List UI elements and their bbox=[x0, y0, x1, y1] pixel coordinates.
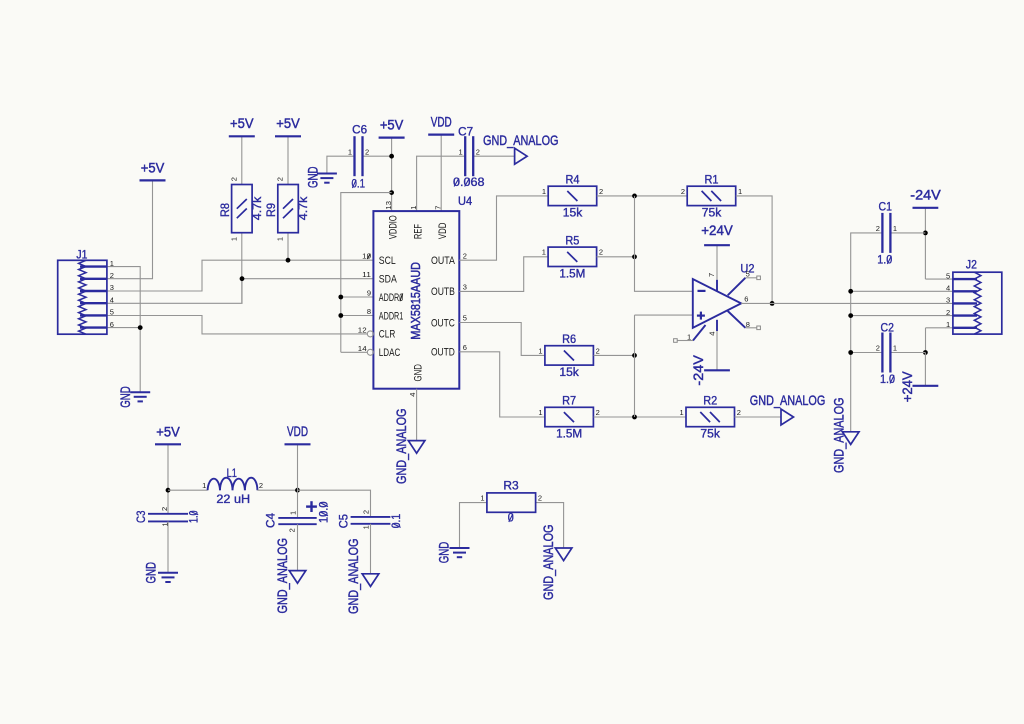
connector J1 pin numbers bbox=[110, 259, 114, 329]
label GND (J1) bbox=[117, 386, 133, 408]
capacitor C5 pin2 number bbox=[361, 510, 370, 514]
svg-text:2: 2 bbox=[259, 481, 263, 490]
svg-text:1: 1 bbox=[680, 408, 684, 417]
capacitor C4 plus sign bbox=[306, 501, 317, 512]
svg-text:OUTA: OUTA bbox=[431, 255, 455, 267]
wire J2 pin5 bbox=[925, 278, 953, 280]
svg-text:R3: R3 bbox=[503, 480, 518, 492]
capacitor C3 pin1 number bbox=[160, 522, 169, 526]
svg-text:1: 1 bbox=[276, 237, 285, 241]
svg-text:1.0: 1.0 bbox=[880, 374, 895, 386]
label +24V (J2) bbox=[899, 371, 915, 403]
label GND_ANALOG (R2) bbox=[750, 392, 826, 408]
svg-text:+5V: +5V bbox=[380, 116, 404, 132]
svg-text:GND: GND bbox=[305, 167, 321, 189]
resistor R3 designator bbox=[503, 480, 518, 492]
svg-text:1: 1 bbox=[409, 206, 418, 210]
svg-text:4: 4 bbox=[946, 284, 950, 293]
svg-text:GND_ANALOG: GND_ANALOG bbox=[483, 132, 559, 148]
resistor R8 designator bbox=[220, 203, 232, 217]
svg-text:4: 4 bbox=[408, 393, 417, 397]
capacitor C3 value bbox=[189, 511, 201, 524]
svg-text:1: 1 bbox=[202, 481, 206, 490]
wire L1 pin2 to VDD bbox=[257, 489, 297, 491]
wire R9 to SCL bbox=[287, 233, 289, 261]
svg-text:2: 2 bbox=[365, 147, 369, 156]
svg-text:10: 10 bbox=[362, 252, 371, 261]
svg-text:C6: C6 bbox=[352, 125, 367, 137]
wire ADDR/LDAC tie bbox=[341, 193, 392, 353]
svg-text:4.7k: 4.7k bbox=[252, 196, 264, 220]
power bar +5V (filter) bbox=[155, 443, 181, 445]
IC U4 left pin numbers bbox=[358, 252, 371, 353]
wire C3 to GND bbox=[167, 521, 169, 572]
resistor R1 bbox=[681, 186, 742, 205]
capacitor C5 bbox=[351, 517, 391, 524]
wire J1 pin6 bbox=[107, 327, 140, 329]
wire to +24V bar bbox=[924, 353, 926, 386]
ground GND_ANALOG (C5) bbox=[362, 574, 379, 587]
svg-text:2: 2 bbox=[599, 187, 603, 196]
resistor R4 value bbox=[563, 207, 583, 219]
svg-text:R5: R5 bbox=[565, 235, 579, 247]
wire R5 to node bbox=[597, 256, 635, 258]
svg-text:R9: R9 bbox=[266, 203, 278, 217]
wire R3 pin2 to GND_ANALOG bbox=[536, 503, 564, 548]
op-amp pin1 stub bbox=[693, 325, 706, 341]
ground GND (J1) bbox=[130, 392, 150, 401]
label GND (C6) bbox=[305, 167, 321, 189]
svg-text:GND_ANALOG: GND_ANALOG bbox=[831, 398, 847, 474]
svg-text:CLR: CLR bbox=[379, 329, 396, 341]
svg-text:-24V: -24V bbox=[690, 354, 706, 385]
resistor R5 bbox=[542, 247, 603, 266]
svg-text:GND: GND bbox=[143, 562, 159, 584]
junction +5V/ADDR tie bbox=[389, 190, 394, 195]
label +24V (U2) bbox=[701, 222, 733, 238]
svg-text:C5: C5 bbox=[338, 514, 350, 528]
svg-text:2: 2 bbox=[538, 494, 542, 503]
wire R7 to R2 bbox=[594, 416, 686, 418]
svg-text:VDD: VDD bbox=[287, 423, 308, 439]
wire to op-amp noninverting input bbox=[635, 314, 693, 316]
resistor R7 value bbox=[556, 429, 582, 441]
svg-text:R1: R1 bbox=[705, 175, 719, 187]
connector J2 bbox=[953, 272, 1002, 334]
svg-text:3: 3 bbox=[110, 283, 114, 292]
label GND_ANALOG (C4) bbox=[274, 538, 290, 614]
svg-text:R2: R2 bbox=[703, 396, 717, 408]
wire C1 pin2 analog ground rail bbox=[851, 233, 883, 432]
IC U4 top pin number 13 bbox=[384, 201, 393, 210]
wire noninverting vertical bbox=[634, 315, 636, 417]
wire +5V to C3/L1 bbox=[167, 444, 169, 514]
svg-text:OUTD: OUTD bbox=[431, 347, 455, 359]
wire J1 pin4 to SDA bbox=[107, 279, 373, 304]
power bar +5V (J1) bbox=[140, 179, 166, 181]
svg-text:1: 1 bbox=[538, 346, 542, 355]
svg-text:1: 1 bbox=[361, 525, 370, 529]
wire OUTD to R7 bbox=[459, 352, 544, 417]
power bar +24V (J2) bbox=[913, 385, 939, 387]
resistor R1 value bbox=[702, 207, 722, 219]
capacitor C5 value bbox=[391, 514, 403, 529]
op-amp pin1 number bbox=[687, 332, 691, 341]
wire C1 pin1 bbox=[890, 232, 925, 234]
junction R6 node bbox=[632, 353, 637, 358]
resistor R6 bbox=[538, 346, 599, 365]
label +5V (U4) bbox=[380, 116, 404, 132]
svg-text:C7: C7 bbox=[458, 126, 473, 138]
capacitor C2 designator bbox=[881, 323, 894, 335]
IC U4 bottom pin name GND bbox=[412, 364, 424, 382]
svg-text:1: 1 bbox=[288, 511, 297, 515]
ground GND_ANALOG (R3) bbox=[555, 548, 572, 561]
wire R3 pin1 to GND bbox=[460, 503, 487, 548]
svg-text:1: 1 bbox=[348, 147, 352, 156]
wire J2 pin1 bbox=[926, 327, 953, 329]
capacitor C5 pin1 number bbox=[361, 525, 370, 529]
inductor L1 pin2 number bbox=[259, 481, 263, 490]
svg-text:4.7k: 4.7k bbox=[298, 196, 310, 220]
power bar -24V (J2) bbox=[913, 207, 939, 209]
resistor R2 designator bbox=[703, 396, 717, 408]
svg-text:GND_ANALOG: GND_ANALOG bbox=[345, 539, 361, 615]
ground GND (C3) bbox=[158, 573, 178, 582]
wire L1 pin1 bbox=[168, 489, 208, 491]
junction C2/rail bbox=[848, 350, 853, 355]
capacitor C6 value bbox=[352, 179, 366, 191]
wire C6 pin1 to GND bbox=[327, 156, 355, 173]
ground GND (C6) bbox=[317, 174, 337, 183]
resistor R8 value bbox=[252, 196, 264, 220]
svg-text:1: 1 bbox=[110, 259, 114, 268]
svg-text:L1: L1 bbox=[227, 468, 237, 480]
IC U4 top pin name VDDIO bbox=[387, 215, 399, 239]
capacitor C7 bbox=[459, 136, 480, 176]
svg-text:2: 2 bbox=[599, 248, 603, 257]
inductor L1 pin1 number bbox=[202, 481, 206, 490]
wire to op-amp inverting input bbox=[635, 196, 693, 291]
IC U4 right pin numbers bbox=[463, 251, 467, 352]
svg-text:8: 8 bbox=[367, 307, 371, 316]
resistor R8 pin1 number bbox=[229, 237, 238, 241]
svg-text:1: 1 bbox=[459, 147, 463, 156]
wire op-amp pin5 nc bbox=[745, 277, 756, 279]
wire VDD rail to C4 bbox=[297, 444, 299, 518]
resistor R9 pin2 number bbox=[276, 177, 285, 181]
no-connect square pin1 bbox=[674, 339, 678, 343]
capacitor C6 designator bbox=[352, 125, 367, 137]
junction +5V/L1/C3 bbox=[166, 488, 171, 493]
capacitor C1 designator bbox=[879, 202, 892, 214]
svg-text:U4: U4 bbox=[458, 196, 473, 208]
svg-text:9: 9 bbox=[367, 289, 371, 298]
resistor R7 bbox=[538, 407, 599, 426]
svg-text:1.5M: 1.5M bbox=[559, 268, 585, 280]
power bar +24V (U2) bbox=[704, 244, 730, 246]
svg-text:5: 5 bbox=[746, 270, 750, 279]
svg-text:2: 2 bbox=[276, 177, 285, 181]
power bar -24V (U2) bbox=[704, 369, 730, 371]
svg-text:8: 8 bbox=[746, 320, 750, 329]
IC U4 top pin number 1 bbox=[409, 206, 418, 210]
svg-text:1: 1 bbox=[946, 320, 950, 329]
resistor R9 designator bbox=[266, 203, 278, 217]
wire ADDR0 stub bbox=[341, 296, 374, 298]
svg-text:J2: J2 bbox=[966, 260, 977, 272]
svg-text:1: 1 bbox=[542, 248, 546, 257]
svg-text:3: 3 bbox=[946, 296, 950, 305]
svg-text:-24V: -24V bbox=[910, 187, 941, 203]
svg-text:5: 5 bbox=[110, 308, 114, 317]
label GND (R3) bbox=[435, 542, 451, 564]
IC U4 outline bbox=[373, 211, 459, 389]
wire C7 pin2 bbox=[473, 155, 514, 157]
svg-text:1: 1 bbox=[738, 187, 742, 196]
junction ADDR1 bbox=[338, 313, 343, 318]
wire C4 to GND_ANALOG bbox=[297, 524, 299, 570]
capacitor C1 value bbox=[877, 255, 892, 267]
label VDD (U4) bbox=[431, 113, 452, 129]
capacitor C1 bbox=[876, 213, 897, 253]
capacitor C2 value bbox=[880, 374, 895, 386]
wire J1 pin1 to GND bbox=[107, 267, 140, 393]
svg-text:R4: R4 bbox=[566, 175, 581, 187]
resistor R4 bbox=[542, 186, 603, 205]
label +5V (J1) bbox=[141, 159, 165, 175]
IC U4 left pin names bbox=[379, 255, 404, 359]
svg-text:2: 2 bbox=[476, 147, 480, 156]
wire OUTA to R4 bbox=[459, 196, 548, 260]
junction R7/R2 node bbox=[632, 415, 637, 420]
IC U4 bottom pin number 4 bbox=[408, 393, 417, 397]
junction J2 pin2/rail bbox=[848, 313, 853, 318]
svg-text:1: 1 bbox=[542, 187, 546, 196]
svg-text:LDAC: LDAC bbox=[379, 347, 401, 359]
power bar +5V (R9) bbox=[275, 135, 301, 137]
label GND (C3) bbox=[143, 562, 159, 584]
IC U4 CLR bubble bbox=[367, 331, 373, 337]
wire R8 to SDA bbox=[241, 233, 243, 304]
capacitor C6 bbox=[348, 136, 369, 176]
svg-text:1: 1 bbox=[687, 332, 691, 341]
junction J2 pin4/rail bbox=[848, 289, 853, 294]
svg-text:7: 7 bbox=[433, 206, 442, 210]
capacitor C3 designator bbox=[136, 511, 148, 524]
svg-text:+24V: +24V bbox=[899, 371, 915, 403]
svg-text:2: 2 bbox=[681, 187, 685, 196]
wire C2 pin2 bbox=[851, 352, 883, 354]
resistor R9 bbox=[278, 185, 299, 233]
svg-text:C4: C4 bbox=[266, 512, 278, 528]
svg-text:14: 14 bbox=[358, 344, 367, 353]
svg-text:4: 4 bbox=[110, 295, 114, 304]
ground GND_ANALOG (C1 rail) bbox=[842, 432, 859, 445]
capacitor C4 pin2 number bbox=[288, 528, 297, 532]
svg-text:22 uH: 22 uH bbox=[216, 494, 250, 506]
wire ADDR1 stub bbox=[341, 315, 374, 317]
wire LDAC stub bbox=[341, 351, 367, 353]
label +5V (R8) bbox=[230, 115, 254, 131]
svg-text:REF: REF bbox=[412, 224, 424, 239]
svg-text:1.0: 1.0 bbox=[877, 255, 892, 267]
svg-text:7: 7 bbox=[707, 273, 716, 277]
junction VDD/L1/C4 bbox=[295, 488, 300, 493]
svg-text:2: 2 bbox=[463, 251, 467, 260]
label GND_ANALOG (U4) bbox=[393, 409, 409, 485]
label GND_ANALOG (C7) bbox=[483, 132, 559, 148]
svg-text:GND: GND bbox=[435, 542, 451, 564]
power bar VDD (filter) bbox=[285, 443, 311, 445]
svg-text:6: 6 bbox=[110, 320, 114, 329]
resistor R5 designator bbox=[565, 235, 579, 247]
capacitor C2 bbox=[876, 333, 897, 373]
wire J2 pin4 bbox=[851, 290, 953, 292]
connector J2 pin numbers bbox=[946, 271, 950, 329]
capacitor C5 designator bbox=[338, 514, 350, 528]
wire op-amp output to J2 pin3 bbox=[741, 302, 953, 304]
svg-text:VDD: VDD bbox=[431, 113, 452, 129]
resistor R8 bbox=[232, 185, 253, 233]
wire J2 pin1 down bbox=[925, 328, 927, 353]
svg-text:13: 13 bbox=[384, 201, 393, 210]
wire U4 GND pin bbox=[416, 389, 418, 441]
svg-text:11: 11 bbox=[362, 270, 371, 279]
svg-text:1: 1 bbox=[229, 237, 238, 241]
wire +5V to R8 bbox=[241, 136, 243, 184]
resistor R9 value bbox=[298, 196, 310, 220]
capacitor C4 designator bbox=[266, 512, 278, 528]
resistor R2 bbox=[680, 407, 741, 426]
resistor R1 designator bbox=[705, 175, 719, 187]
svg-text:+24V: +24V bbox=[701, 222, 733, 238]
wire C6 pin2 bbox=[363, 155, 392, 157]
svg-text:2: 2 bbox=[876, 344, 880, 353]
svg-text:1: 1 bbox=[893, 344, 897, 353]
svg-text:GND_ANALOG: GND_ANALOG bbox=[540, 525, 556, 601]
label -24V (J2) bbox=[910, 187, 941, 203]
wire C5 to GND_ANALOG bbox=[370, 524, 372, 574]
svg-text:SDA: SDA bbox=[379, 274, 398, 286]
svg-text:J1: J1 bbox=[76, 249, 87, 261]
label +5V (R9) bbox=[276, 115, 300, 131]
junction R8/SDA bbox=[240, 276, 245, 281]
op-amp pin5 number bbox=[746, 270, 750, 279]
op-amp pin7 stub bbox=[716, 280, 718, 291]
wire R6 to node bbox=[594, 354, 635, 356]
junction ADDR0 bbox=[338, 295, 343, 300]
label GND_ANALOG (C1 rail) bbox=[831, 398, 847, 474]
svg-text:2: 2 bbox=[361, 510, 370, 514]
no-connect square pin8 bbox=[757, 326, 761, 330]
wire J2 pin2 bbox=[851, 315, 953, 317]
svg-text:C2: C2 bbox=[881, 323, 894, 335]
ground GND (R3) bbox=[450, 548, 470, 557]
label +5V (filter) bbox=[156, 423, 180, 439]
resistor R2 value bbox=[700, 429, 720, 441]
svg-text:GND: GND bbox=[117, 386, 133, 408]
svg-text:ADDR0: ADDR0 bbox=[379, 292, 404, 304]
resistor R6 value bbox=[559, 367, 579, 379]
svg-text:GND_ANALOG: GND_ANALOG bbox=[393, 409, 409, 485]
svg-text:1: 1 bbox=[480, 494, 484, 503]
IC U4 right pin names bbox=[431, 255, 455, 359]
svg-text:2: 2 bbox=[229, 177, 238, 181]
resistor R4 designator bbox=[566, 175, 581, 187]
wire R4 to R1 bbox=[597, 195, 688, 197]
svg-text:2: 2 bbox=[946, 308, 950, 317]
op-amp pin8 stub bbox=[728, 311, 746, 328]
power bar +5V (R8) bbox=[229, 135, 255, 137]
op-amp U2 bbox=[693, 279, 741, 328]
wire +5V to VDDIO pin13 bbox=[391, 138, 393, 212]
svg-text:GND_ANALOG: GND_ANALOG bbox=[274, 538, 290, 614]
svg-text:GND_ANALOG: GND_ANALOG bbox=[750, 392, 826, 408]
junction R9/SCL bbox=[286, 258, 291, 263]
op-amp pin4 number bbox=[708, 332, 717, 336]
junction R5 node bbox=[632, 254, 637, 259]
op-amp pin6 number bbox=[744, 295, 748, 304]
resistor R5 value bbox=[559, 268, 585, 280]
resistor R6 designator bbox=[562, 334, 576, 346]
op-amp pin8 number bbox=[746, 320, 750, 329]
svg-text:+5V: +5V bbox=[276, 115, 300, 131]
svg-text:GND: GND bbox=[412, 364, 424, 382]
resistor R7 designator bbox=[562, 396, 576, 408]
junction C2/+24V bbox=[923, 350, 928, 355]
capacitor C3 pin2 number bbox=[160, 507, 169, 511]
svg-text:6: 6 bbox=[744, 295, 748, 304]
svg-text:75k: 75k bbox=[700, 429, 720, 441]
wire OUTB to R5 bbox=[459, 257, 548, 292]
svg-text:1: 1 bbox=[538, 408, 542, 417]
svg-text:R7: R7 bbox=[562, 396, 576, 408]
wire op-amp pin8 nc bbox=[745, 327, 756, 329]
svg-text:4: 4 bbox=[708, 332, 717, 336]
svg-text:+5V: +5V bbox=[230, 115, 254, 131]
svg-text:R6: R6 bbox=[562, 334, 576, 346]
svg-text:75k: 75k bbox=[702, 207, 722, 219]
IC U4 top pin number 7 bbox=[433, 206, 442, 210]
ground GND_ANALOG (C7) bbox=[515, 148, 528, 164]
power bar VDD (U4) bbox=[428, 134, 454, 136]
svg-text:SCL: SCL bbox=[379, 255, 396, 267]
wire REF to C7 bbox=[417, 156, 466, 211]
svg-text:2: 2 bbox=[596, 408, 600, 417]
IC U4 top pin name REF bbox=[412, 224, 424, 239]
svg-text:OUTC: OUTC bbox=[431, 317, 455, 329]
IC U4 top pin name VDD bbox=[437, 223, 449, 240]
wire VDD to U4 pin7 bbox=[440, 135, 442, 212]
wire OUTC to R6 bbox=[459, 323, 544, 356]
wire R1 feedback bbox=[736, 196, 772, 304]
IC U4 designator bbox=[458, 196, 473, 208]
capacitor C7 value bbox=[453, 177, 485, 189]
op-amp pin4 stub bbox=[716, 320, 718, 331]
svg-text:R8: R8 bbox=[220, 203, 232, 217]
svg-text:2: 2 bbox=[160, 507, 169, 511]
svg-text:6: 6 bbox=[463, 343, 467, 352]
svg-text:5: 5 bbox=[463, 314, 467, 323]
wire to C5 bbox=[298, 490, 371, 517]
ground GND_ANALOG (U4) bbox=[408, 441, 425, 454]
resistor R8 pin2 number bbox=[229, 177, 238, 181]
wire op-amp pin4 to -24V bbox=[716, 331, 718, 370]
inductor L1 bbox=[208, 478, 258, 491]
connector J1 bbox=[58, 260, 107, 334]
svg-text:C3: C3 bbox=[136, 511, 148, 524]
